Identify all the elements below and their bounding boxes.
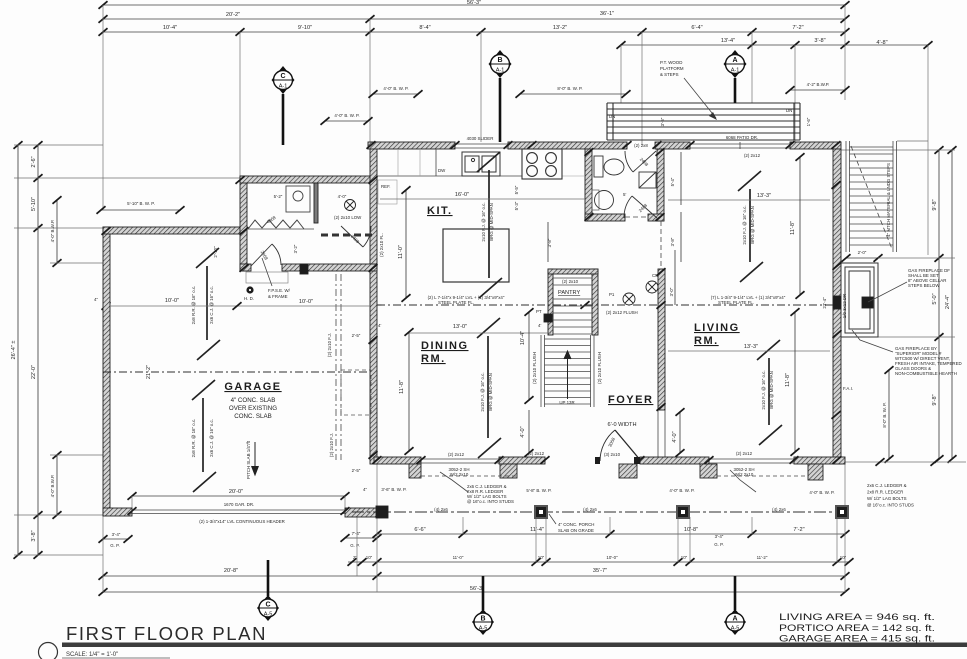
garage ceiling dash line	[103, 371, 370, 373]
PT post square	[544, 314, 552, 322]
bottom extension lines	[102, 515, 104, 592]
svg-text:@ 16"o.c. INTO STUDS: @ 16"o.c. INTO STUDS	[867, 503, 914, 508]
svg-text:A-1: A-1	[496, 68, 505, 74]
svg-text:13'-4": 13'-4"	[721, 38, 735, 44]
svg-text:26'-4" ±: 26'-4" ±	[11, 341, 17, 360]
section marker C/A-5	[267, 560, 270, 596]
steel beam line	[377, 304, 833, 306]
svg-text:11'-8": 11'-8"	[785, 373, 791, 387]
svg-text:DINING: DINING	[421, 340, 469, 352]
mud washer box	[286, 186, 310, 212]
svg-text:W/2 2x10: W/2 2x10	[735, 472, 754, 477]
svg-text:4": 4"	[363, 487, 367, 492]
pantry shelves	[553, 278, 592, 334]
svg-text:& STEPS: & STEPS	[660, 72, 679, 77]
svg-text:SCALE: 1/4" = 1'-0": SCALE: 1/4" = 1'-0"	[66, 652, 118, 658]
wall garage west	[103, 227, 110, 515]
wall opening ticks front wall	[373, 456, 842, 464]
svg-text:4'-2" B.W.P.: 4'-2" B.W.P.	[807, 82, 830, 87]
wall front seg4	[794, 457, 845, 464]
svg-text:RM.: RM.	[694, 335, 719, 347]
svg-text:5'-10": 5'-10"	[31, 197, 37, 211]
mud entry post	[300, 264, 308, 274]
svg-text:4'-8": 4'-8"	[876, 40, 887, 46]
svg-text:W/ 1/2" LAG BOLTS: W/ 1/2" LAG BOLTS	[867, 496, 907, 501]
svg-text:8'-0" B. W. P.: 8'-0" B. W. P.	[882, 402, 887, 427]
svg-text:LIVING: LIVING	[694, 322, 740, 334]
svg-text:3'-6" B. W. P.: 3'-6" B. W. P.	[381, 487, 406, 492]
svg-text:PANTRY: PANTRY	[558, 290, 580, 296]
svg-text:(2) 1-3/4"x14" LVL CONTINUOUS: (2) 1-3/4"x14" LVL CONTINUOUS HEADER	[199, 519, 285, 524]
kitchen cabinets faint	[378, 149, 585, 204]
leader fireplace note2	[852, 330, 893, 352]
svg-text:13'-3": 13'-3"	[744, 344, 758, 350]
foyer front door arc	[600, 430, 641, 461]
section marker C/A-1	[272, 66, 295, 94]
section marker B/A-5	[482, 576, 485, 610]
svg-text:3'-6": 3'-6"	[660, 117, 665, 126]
leader ledger note right	[730, 470, 756, 492]
svg-text:LIVING AREA = 946 sq. ft.: LIVING AREA = 946 sq. ft.	[779, 612, 935, 622]
svg-text:2'-5": 2'-5"	[352, 468, 361, 473]
svg-text:W/2 2x10: W/2 2x10	[450, 472, 469, 477]
leader porch note	[549, 514, 556, 524]
wall foyer/living	[658, 269, 665, 410]
svg-text:(2) 2x10 FL.: (2) 2x10 FL.	[379, 233, 384, 257]
dim row 20'-2 / 36'-1	[103, 18, 845, 20]
svg-text:DN: DN	[609, 114, 615, 119]
svg-text:10": 10"	[538, 555, 545, 560]
svg-text:NON-COMBUSTIBLE HEARTH: NON-COMBUSTIBLE HEARTH	[895, 371, 957, 376]
bath shower box	[639, 172, 656, 188]
section marker A/A-5	[734, 576, 737, 610]
svg-text:2x6 C.J. LEDGER &: 2x6 C.J. LEDGER &	[867, 483, 907, 488]
svg-text:BRG @ MID-SPAN: BRG @ MID-SPAN	[488, 373, 493, 411]
dim row 56'-3 overall top	[103, 4, 845, 6]
svg-text:3'-8": 3'-8"	[814, 38, 825, 44]
svg-text:G. P.: G. P.	[350, 543, 359, 548]
left extension lines	[14, 144, 103, 146]
span arrow kitchen	[477, 152, 502, 298]
svg-text:(2) 2x12: (2) 2x12	[736, 451, 753, 456]
svg-text:4'-0": 4'-0"	[672, 431, 678, 442]
wall bath south door dash	[625, 216, 648, 218]
dim col 8'-0 BWP right	[888, 370, 890, 459]
svg-text:1/0 3x12 DR: 1/0 3x12 DR	[842, 294, 847, 318]
dim 3'-4 G.P. left	[103, 538, 128, 540]
dim 4'-2 BWP	[790, 89, 845, 91]
svg-text:(2) 2x12 FLUSH: (2) 2x12 FLUSH	[606, 310, 638, 315]
mud-garage door arc	[251, 244, 281, 266]
smoke detector mud	[345, 200, 356, 211]
svg-text:22'-0": 22'-0"	[31, 365, 37, 379]
kitchen stove	[522, 149, 562, 179]
svg-text:3'-8": 3'-8"	[670, 237, 675, 246]
svg-text:1'-6": 1'-6"	[806, 117, 811, 126]
svg-text:2x8 R.R. @ 16" o.c.: 2x8 R.R. @ 16" o.c.	[191, 286, 196, 325]
svg-text:7'-4": 7'-4"	[352, 531, 361, 536]
dim 5'-10 BWP garage top	[101, 209, 180, 211]
dim row 10'-4 / 9'-10 / 8'-4 / 13'-2 / 6'-4 / 7'-2	[103, 31, 845, 33]
wall bath west	[585, 149, 592, 221]
svg-text:13'-2": 13'-2"	[553, 25, 567, 31]
svg-text:3'-8": 3'-8"	[31, 530, 37, 541]
mud threshold	[246, 272, 288, 283]
svg-text:DN: DN	[786, 108, 792, 113]
wall pantry west	[548, 269, 553, 335]
svg-text:10'-8": 10'-8"	[684, 527, 698, 533]
svg-text:10": 10"	[840, 555, 847, 560]
svg-text:11'-0": 11'-0"	[398, 245, 404, 259]
rear deck platform	[607, 103, 800, 140]
svg-text:& FRAME: & FRAME	[268, 294, 288, 299]
span arrow living lower	[757, 340, 782, 445]
section marker A/A-1	[724, 50, 747, 78]
svg-text:(2) 2x10 F.J.: (2) 2x10 F.J.	[327, 333, 332, 357]
svg-text:8'-4": 8'-4"	[419, 25, 430, 31]
porch post 2	[535, 506, 547, 518]
svg-text:20'-0": 20'-0"	[229, 489, 243, 495]
section marker B/A-1	[489, 50, 512, 78]
svg-text:16'-0": 16'-0"	[455, 192, 469, 198]
svg-text:REF.: REF.	[381, 184, 391, 189]
svg-text:9'-10": 9'-10"	[298, 25, 312, 31]
svg-text:CONC. SLAB: CONC. SLAB	[234, 413, 271, 420]
mud bifold doors 4868	[248, 220, 304, 229]
svg-text:4" CONC. SLAB: 4" CONC. SLAB	[231, 397, 276, 404]
wall mud room north	[240, 176, 377, 183]
svg-text:3'-0": 3'-0"	[669, 287, 674, 296]
mud header (2) 2x10 LOW dashed	[321, 234, 376, 237]
kitchen sink	[462, 152, 500, 176]
svg-text:6'-4": 6'-4"	[691, 25, 702, 31]
svg-text:10": 10"	[366, 555, 373, 560]
span arrow living upper	[738, 171, 763, 282]
svg-text:(2) 2x8: (2) 2x8	[634, 143, 648, 148]
mud closet partition	[314, 183, 318, 223]
svg-text:4" MTCH MATERIAL & LNDG STEPS: 4" MTCH MATERIAL & LNDG STEPS	[886, 163, 891, 237]
leader FPSE	[262, 258, 272, 286]
svg-text:2x10 F.J. @ 16" o.c.: 2x10 F.J. @ 16" o.c.	[761, 370, 766, 409]
dim col 2'-6 / 5'-10 / 22'-0	[37, 145, 39, 555]
wall garage front left	[103, 508, 132, 516]
svg-text:H. D.: H. D.	[244, 296, 254, 301]
wall house north seg4	[790, 142, 841, 149]
wall mud room west	[240, 176, 247, 271]
svg-text:5'-2": 5'-2"	[274, 194, 283, 199]
dim row 6'-6 / 11'-4 / 10'-8 / 7'-2	[377, 533, 845, 535]
svg-text:2'-10": 2'-10"	[213, 246, 218, 258]
porch post 4	[836, 506, 848, 518]
svg-text:5'-10" B. W. P.: 5'-10" B. W. P.	[127, 201, 155, 206]
svg-text:(2) 2x10 FLUSH: (2) 2x10 FLUSH	[532, 352, 537, 384]
svg-text:4'-0" B.W.P.: 4'-0" B.W.P.	[50, 220, 55, 243]
svg-text:2'-6": 2'-6"	[31, 156, 37, 167]
svg-text:10": 10"	[681, 555, 688, 560]
svg-text:GARAGE: GARAGE	[224, 381, 281, 393]
dim row 56'-3 overall bottom	[103, 591, 845, 593]
svg-text:BRG @ MID-SPAN: BRG @ MID-SPAN	[769, 371, 774, 409]
window sill dashes	[421, 475, 517, 477]
svg-text:A-1: A-1	[279, 84, 288, 90]
svg-text:2x10 F.J. @ 16" o.c.: 2x10 F.J. @ 16" o.c.	[480, 372, 485, 411]
window 6068 patio door	[690, 142, 790, 149]
svg-text:10'-0": 10'-0"	[165, 298, 179, 304]
svg-text:13'-0": 13'-0"	[453, 324, 467, 330]
svg-text:2x6 C.J. @ 16" o.c.: 2x6 C.J. @ 16" o.c.	[209, 286, 214, 324]
svg-text:CM: CM	[652, 273, 659, 278]
svg-text:UP 13R: UP 13R	[559, 400, 574, 405]
dim row 13'-4 / 3'-8 / 4'-8	[621, 44, 928, 46]
leader fireplace note1	[868, 282, 907, 302]
svg-text:2x10 F.J. @ 16" o.c.: 2x10 F.J. @ 16" o.c.	[742, 205, 747, 244]
dim row porch posts 11'-0 / 10'-0 / 11'-2	[348, 561, 849, 563]
svg-text:5'-5": 5'-5"	[514, 185, 519, 194]
bath door bottom arc	[624, 196, 657, 218]
svg-text:11'-8": 11'-8"	[790, 221, 796, 235]
wall front seg2	[499, 457, 545, 464]
svg-text:2'-5": 2'-5"	[352, 333, 361, 338]
svg-text:FIRST FLOOR PLAN: FIRST FLOOR PLAN	[66, 623, 267, 644]
svg-text:P1: P1	[609, 292, 615, 297]
svg-text:24'-4": 24'-4"	[945, 295, 951, 309]
dim line 11'-8 dining	[408, 332, 410, 451]
wall mud south seg1	[240, 264, 251, 271]
svg-text:A-1: A-1	[731, 68, 740, 74]
svg-text:(2) 2x10 F.J.: (2) 2x10 F.J.	[329, 433, 334, 457]
svg-text:4'-0" B. W. P.: 4'-0" B. W. P.	[334, 113, 359, 118]
mud closet door arc	[341, 226, 371, 247]
wall opening ticks top wall	[367, 141, 841, 149]
dim 7'-4 G.P. mid	[345, 537, 377, 539]
wall living east	[833, 149, 841, 464]
svg-text:36'-1": 36'-1"	[600, 11, 614, 17]
svg-text:3'-2": 3'-2"	[293, 244, 298, 253]
dim 4'-0 BWP over mud room	[325, 120, 368, 122]
bath toilet	[594, 156, 624, 177]
bath door top arc	[625, 151, 656, 172]
dim row 20'-8 / 35'-7	[103, 575, 845, 577]
svg-text:4'-0" B. W. P.: 4'-0" B. W. P.	[383, 86, 408, 91]
svg-text:4'-0" B. W. P.: 4'-0" B. W. P.	[809, 490, 834, 495]
svg-text:3'-4": 3'-4"	[715, 534, 724, 539]
porch post 3	[677, 506, 689, 518]
svg-text:5'-8" B. W. P.: 5'-8" B. W. P.	[526, 488, 551, 493]
svg-text:G. P.: G. P.	[714, 542, 723, 547]
svg-text:A: A	[732, 616, 737, 623]
svg-text:2x6 C.J. @ 16" o.c.: 2x6 C.J. @ 16" o.c.	[209, 419, 214, 457]
svg-text:5'-4": 5'-4"	[670, 177, 675, 186]
kitchen counter edge	[377, 175, 522, 177]
svg-text:(4) 2x6: (4) 2x6	[434, 507, 448, 512]
leader ledger note left	[440, 472, 468, 492]
foyer door jamb posts	[595, 457, 600, 464]
svg-text:11'-8": 11'-8"	[399, 380, 405, 394]
wall party garage/house	[370, 142, 377, 464]
svg-text:10'-0": 10'-0"	[299, 299, 313, 305]
svg-text:A: A	[732, 57, 737, 64]
svg-text:PORTICO AREA = 142 sq. ft.: PORTICO AREA = 142 sq. ft.	[779, 623, 935, 633]
svg-text:GARAGE AREA = 415 sq. ft.: GARAGE AREA = 415 sq. ft.	[779, 634, 935, 644]
svg-text:6'-6": 6'-6"	[414, 527, 425, 533]
svg-text:SLAB ON GRADE: SLAB ON GRADE	[558, 528, 594, 533]
garage door 1670	[132, 510, 345, 514]
window dining 3052-2 SH	[421, 459, 499, 463]
svg-text:13'-3": 13'-3"	[757, 193, 771, 199]
svg-text:BRG @ MID-SPAN: BRG @ MID-SPAN	[489, 203, 494, 241]
svg-text:C: C	[265, 602, 270, 609]
svg-text:A-5: A-5	[264, 612, 273, 618]
svg-text:BRG @ MID-SPAN: BRG @ MID-SPAN	[750, 206, 755, 244]
svg-text:4030 SLIDER: 4030 SLIDER	[467, 136, 494, 141]
pitch arrow garage slab	[252, 442, 259, 475]
svg-text:4'-0": 4'-0"	[338, 194, 347, 199]
porch edge line	[352, 511, 845, 513]
dim 20'-0 garage door	[132, 495, 345, 497]
svg-text:11'-4": 11'-4"	[530, 527, 544, 533]
wall house north seg2	[508, 142, 627, 149]
svg-text:4'-0": 4'-0"	[520, 426, 526, 437]
svg-text:4": 4"	[94, 297, 98, 302]
wall ticks misc	[102, 148, 842, 515]
svg-text:2'-0": 2'-0"	[858, 250, 867, 255]
window 4030 slider	[455, 144, 508, 148]
wall pantry north	[548, 269, 598, 274]
stairs up arrow	[564, 351, 571, 399]
svg-text:G. P.: G. P.	[110, 543, 119, 548]
svg-text:7'-2": 7'-2"	[792, 25, 803, 31]
svg-text:(4) 2x6: (4) 2x6	[772, 507, 786, 512]
svg-text:P.T. WOOD: P.T. WOOD	[660, 60, 682, 65]
svg-text:A-5: A-5	[479, 626, 488, 632]
svg-text:11'-0": 11'-0"	[453, 555, 464, 560]
wall house north seg1	[368, 142, 455, 149]
cased opening dash foyer	[660, 221, 662, 269]
dim 8'-0 BWP	[520, 93, 626, 95]
svg-text:4'-0" B. W. P.: 4'-0" B. W. P.	[669, 488, 694, 493]
hold down symbol garage	[246, 286, 253, 293]
span arrow garage upper	[196, 248, 220, 360]
svg-text:5': 5'	[623, 192, 626, 197]
svg-text:56'-3": 56'-3"	[467, 0, 481, 6]
svg-text:35'-7": 35'-7"	[593, 568, 607, 574]
front wall pilaster stubs	[409, 464, 421, 478]
svg-text:4'-0" B.W.P.: 4'-0" B.W.P.	[50, 475, 55, 498]
svg-text:(3) 2x10: (3) 2x10	[604, 452, 621, 457]
dining dashed chase	[341, 370, 371, 415]
wall pantry east	[592, 269, 598, 335]
svg-text:(2) 2x12: (2) 2x12	[744, 153, 761, 158]
dim col 9'-8 / 5'-0 / 9'-8	[938, 150, 940, 459]
svg-text:C: C	[280, 73, 285, 80]
wall front seg1 dining	[374, 457, 421, 464]
svg-text:11'-2": 11'-2"	[757, 555, 768, 560]
foyer stairs	[541, 335, 594, 407]
svg-text:10'-0": 10'-0"	[606, 555, 618, 560]
svg-text:21'-2": 21'-2"	[146, 365, 152, 379]
svg-text:(2) 2x10 LOW: (2) 2x10 LOW	[334, 215, 362, 220]
svg-text:10'-4": 10'-4"	[163, 25, 177, 31]
dim col 26'-4 overall left	[17, 145, 19, 555]
svg-text:DW: DW	[438, 168, 446, 173]
svg-text:STEEL PLATE FL.: STEEL PLATE FL.	[718, 300, 754, 305]
garage joist dashed lines	[335, 274, 337, 460]
svg-text:KIT.: KIT.	[427, 205, 453, 217]
svg-text:4" CONC. PORCH: 4" CONC. PORCH	[558, 522, 594, 527]
svg-text:4': 4'	[378, 323, 381, 328]
deck stairs right	[846, 141, 897, 252]
svg-text:(2) 2x12: (2) 2x12	[448, 452, 465, 457]
fireplace bump out	[841, 263, 878, 337]
dim 4'-0 BWP over kitchen	[373, 93, 418, 95]
wall garage front right corner	[345, 508, 377, 517]
wall garage north	[103, 227, 240, 234]
dim col 4'-0 BWP lower	[56, 455, 58, 515]
wall house north seg3	[655, 142, 690, 149]
wall mud south seg2	[282, 264, 377, 271]
svg-text:7'-2": 7'-2"	[793, 527, 804, 533]
svg-text:PITCH SLAB 1/4"/ft: PITCH SLAB 1/4"/ft	[246, 440, 251, 479]
svg-text:B: B	[497, 57, 502, 64]
dim col 24'-4 overall right	[951, 150, 953, 459]
svg-text:5'-3": 5'-3"	[514, 201, 519, 210]
svg-text:STEEL PLATE FL.: STEEL PLATE FL.	[438, 300, 474, 305]
svg-text:9'-8": 9'-8"	[932, 394, 938, 405]
window living 3052-2 SH	[709, 459, 794, 463]
interior dim lines	[402, 152, 805, 457]
wall front seg3	[640, 457, 709, 464]
svg-text:STEPS BELOW: STEPS BELOW	[908, 283, 940, 288]
svg-text:5'-0": 5'-0"	[932, 293, 938, 304]
fireplace vent	[862, 297, 873, 308]
svg-text:(4) 2x6: (4) 2x6	[583, 507, 597, 512]
svg-text:A-5: A-5	[731, 626, 740, 632]
leader PT wood platform	[684, 78, 717, 120]
smoke detector foyer 2	[646, 281, 658, 293]
svg-text:23'-4": 23'-4"	[822, 297, 827, 309]
svg-text:RM.: RM.	[421, 353, 446, 365]
span arrow dining	[477, 318, 501, 458]
svg-text:2x8 R.R. @ 16" o.c.: 2x8 R.R. @ 16" o.c.	[191, 419, 196, 458]
svg-text:2x8 R.R. LEDGER: 2x8 R.R. LEDGER	[867, 490, 903, 495]
dim col 4'-0 BWP upper	[56, 200, 58, 263]
svg-text:B: B	[480, 616, 485, 623]
bath sink	[595, 191, 614, 210]
svg-text:3'-4": 3'-4"	[112, 532, 121, 537]
svg-text:2x10 F.J. @ 16" o.c.: 2x10 F.J. @ 16" o.c.	[481, 202, 486, 241]
svg-text:PT: PT	[536, 309, 542, 314]
svg-text:(2) 2x10 FLUSH: (2) 2x10 FLUSH	[597, 352, 602, 384]
title bar	[62, 643, 967, 648]
svg-text:PLATFORM: PLATFORM	[660, 66, 684, 71]
svg-text:9'-8": 9'-8"	[932, 199, 938, 210]
svg-text:4': 4'	[538, 323, 541, 328]
svg-text:F.P.S.E. W/: F.P.S.E. W/	[268, 288, 291, 293]
span arrow garage lower	[192, 380, 216, 492]
svg-text:F.A.I.: F.A.I.	[843, 386, 853, 391]
svg-text:@ 16"o.c. INTO STUDS: @ 16"o.c. INTO STUDS	[467, 499, 514, 504]
wall bath south	[585, 214, 625, 221]
svg-text:(2) 2x10: (2) 2x10	[562, 279, 579, 284]
svg-text:6068 PATIO DR.: 6068 PATIO DR.	[726, 135, 758, 140]
svg-text:OVER EXISTING: OVER EXISTING	[229, 405, 277, 412]
svg-text:1670 GAR. DR.: 1670 GAR. DR.	[224, 502, 255, 507]
title circle	[39, 643, 58, 659]
porch post 1	[376, 506, 388, 518]
svg-text:6'-0 WIDTH: 6'-0 WIDTH	[607, 422, 636, 428]
dim 2'-0 deck stair	[846, 257, 878, 259]
kitchen island	[443, 229, 509, 282]
